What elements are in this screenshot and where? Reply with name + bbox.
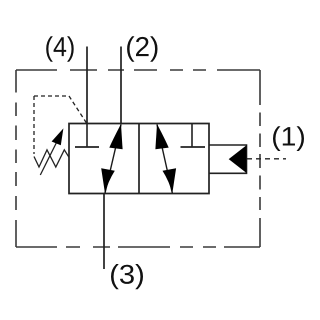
pilot actuator box right <box>209 145 247 173</box>
blocked port symbol right <box>181 124 206 148</box>
pilot line from port 4 to spring chamber (fine dashed) <box>34 96 87 154</box>
pilot line to port 1 (dashed) <box>247 158 286 160</box>
wire port 2 line <box>120 47 122 124</box>
blocked port symbol left (port 4) <box>75 124 99 148</box>
flow arrow left cell <box>101 124 122 194</box>
label (1) <box>273 126 304 151</box>
valve position divider <box>138 124 140 194</box>
adjustment arrow shaft <box>40 136 60 176</box>
label (3) <box>111 264 143 289</box>
spring (adjustable) <box>34 150 69 167</box>
wire port 3 line <box>103 194 105 270</box>
pilot actuator triangle <box>229 145 247 173</box>
label (2) <box>127 36 157 62</box>
flow arrow right cell <box>155 124 176 194</box>
valve body box <box>69 124 209 194</box>
wire port 4 line <box>86 47 88 124</box>
label (4) <box>46 36 73 62</box>
enclosure dashed boundary <box>16 70 260 247</box>
adjustment arrowhead <box>52 128 64 145</box>
